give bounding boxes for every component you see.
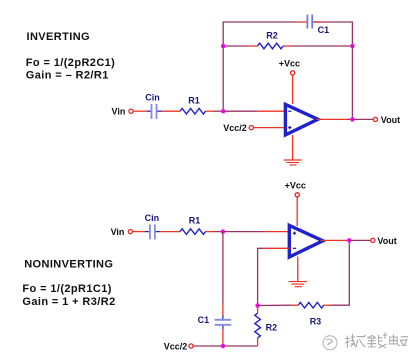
svg-text:Vin: Vin (111, 227, 125, 237)
wire right feedback vertical (351, 46, 353, 119)
wire Vcc/2 to C1 junction (193, 345, 223, 347)
junction output node (bottom) (347, 238, 352, 243)
wire R3 row left (258, 304, 291, 306)
svg-text:Vin: Vin (112, 107, 126, 117)
wire Cin to R1 (bottom) (160, 231, 180, 233)
op-amp U1 (top) (285, 104, 318, 134)
capacitor Cin (bottom) plates (149, 224, 151, 239)
wire output to junction (347, 118, 352, 120)
svg-text:Fo = 1/(2pR2C1): Fo = 1/(2pR2C1) (26, 57, 115, 69)
pin inverting input (bottom op-amp) (263, 247, 289, 249)
wire output to junction (bottom) (346, 239, 349, 241)
junction R2 left (221, 44, 226, 49)
capacitor C1 (bottom) stubs (222, 316, 224, 320)
capacitor Cin (top) stubs (147, 110, 151, 112)
terminal +Vcc (top) (291, 71, 295, 75)
op-amp U2 minus mark (293, 247, 296, 249)
capacitor Cin (top) plates (151, 104, 153, 119)
pin inverting input (top op-amp) (257, 110, 285, 112)
pin output (top op-amp) (317, 118, 348, 120)
capacitor C1 (bottom) plates (215, 319, 232, 321)
wire R3 row right and right vertical (332, 240, 350, 305)
pin V+ power (bottom op-amp) (296, 197, 298, 226)
resistor R2 leads (250, 45, 258, 47)
ground (top) (284, 160, 302, 165)
svg-text:Vcc/2: Vcc/2 (164, 342, 188, 352)
op-amp U1 plus mark (288, 127, 291, 129)
svg-text:Cin: Cin (145, 213, 160, 223)
wire input node down to C1 (bottom) (222, 232, 224, 304)
svg-text:R1: R1 (188, 95, 200, 105)
wire input node to op-amp (223, 110, 257, 112)
capacitor C1 (top) plates (306, 15, 308, 29)
capacitor C1 (bottom) bottom lead (222, 329, 224, 346)
svg-text:R3: R3 (310, 316, 322, 326)
wire R2 row left (223, 45, 249, 47)
wire R1 to input node (bottom) (214, 231, 223, 233)
svg-text:Vout: Vout (377, 236, 396, 246)
wire top feedback row (C1 row) (223, 22, 298, 45)
watermark logo (323, 336, 337, 350)
wire Cin to R1 (162, 110, 180, 112)
wire inverting input to feedback corner (258, 248, 263, 303)
junction feedback node (255, 303, 260, 308)
resistor R1 (bottom) zigzag (180, 229, 206, 235)
svg-text:NONINVERTING: NONINVERTING (24, 259, 113, 271)
resistor R2 (bottom) bottom lead (257, 338, 259, 346)
pin ground (bottom op-amp) (297, 257, 299, 282)
pin output (bottom op-amp) (321, 239, 347, 241)
svg-text:Vcc/2: Vcc/2 (223, 123, 247, 133)
capacitor Cin (bottom) stubs (145, 231, 149, 233)
wire junction to Vout terminal (352, 118, 373, 120)
watermark text (CJK-style marks) (345, 333, 408, 349)
wire junction to Vout terminal (bottom) (349, 239, 370, 241)
svg-text:+Vcc: +Vcc (285, 181, 306, 191)
terminal Vin (bottom) (128, 230, 132, 234)
resistor R1 (top) right lead (206, 110, 215, 112)
resistor R3 leads (291, 304, 299, 306)
op-amp U1 minus mark (288, 110, 291, 112)
wire R2 row right (292, 45, 353, 47)
junction input node (bottom) (221, 229, 226, 234)
terminal Vout (bottom) (371, 238, 375, 242)
op-amp U2 (bottom) (289, 225, 323, 257)
wire Vin to Cin (bottom) (133, 231, 145, 233)
svg-text:Gain = 1 + R3/R2: Gain = 1 + R3/R2 (22, 296, 115, 308)
resistor R1 (top) zigzag (180, 108, 206, 114)
resistor R2 (bottom) zigzag (255, 313, 261, 338)
resistor R2 (bottom) top lead (257, 306, 259, 314)
svg-text:Vout: Vout (381, 115, 400, 125)
wire input node to op-amp (bottom) (223, 231, 263, 233)
pin V+ power (top op-amp) (292, 75, 294, 104)
wire C1 junction to R2 bottom (223, 345, 258, 347)
junction bottom row at C1 (221, 344, 226, 349)
wire Vin to Cin (133, 110, 146, 112)
svg-text:Fo = 1/(2pR1C1): Fo = 1/(2pR1C1) (22, 283, 111, 295)
terminal Vin (top) (129, 109, 133, 113)
svg-text:INVERTING: INVERTING (27, 31, 91, 43)
pin noninverting input (bottom op-amp) (263, 231, 289, 233)
resistor R1 (bottom) right lead (206, 231, 215, 233)
terminal Vout (top) (373, 117, 377, 121)
terminal Vcc/2 (top) (249, 126, 253, 130)
junction input node (top) (221, 109, 226, 114)
wire R1 to input node (214, 110, 223, 112)
svg-text:R2: R2 (266, 31, 278, 41)
pin noninverting input (top op-amp) (254, 127, 285, 129)
svg-text:C1: C1 (318, 25, 330, 35)
wire left feedback vertical (222, 46, 224, 111)
svg-text:C1: C1 (198, 315, 210, 325)
pin ground (top op-amp) (292, 135, 294, 160)
svg-text:Gain = – R2/R1: Gain = – R2/R1 (26, 70, 109, 82)
resistor R2 zigzag (258, 43, 284, 49)
capacitor C1 (top) leads (298, 21, 306, 23)
svg-text:Cin: Cin (145, 93, 160, 103)
svg-text:+Vcc: +Vcc (279, 59, 300, 69)
op-amp U2 plus mark (293, 232, 296, 234)
ground (bottom) (288, 282, 307, 287)
junction R2 right (350, 44, 355, 49)
svg-text:R2: R2 (266, 322, 278, 332)
junction output node (top) (350, 117, 355, 122)
svg-text:R1: R1 (189, 216, 201, 226)
terminal +Vcc (bottom) (295, 193, 299, 197)
capacitor C1 (bottom) top lead (222, 304, 224, 316)
resistor R3 zigzag (298, 302, 324, 308)
terminal Vcc/2 (bottom) (189, 344, 193, 348)
